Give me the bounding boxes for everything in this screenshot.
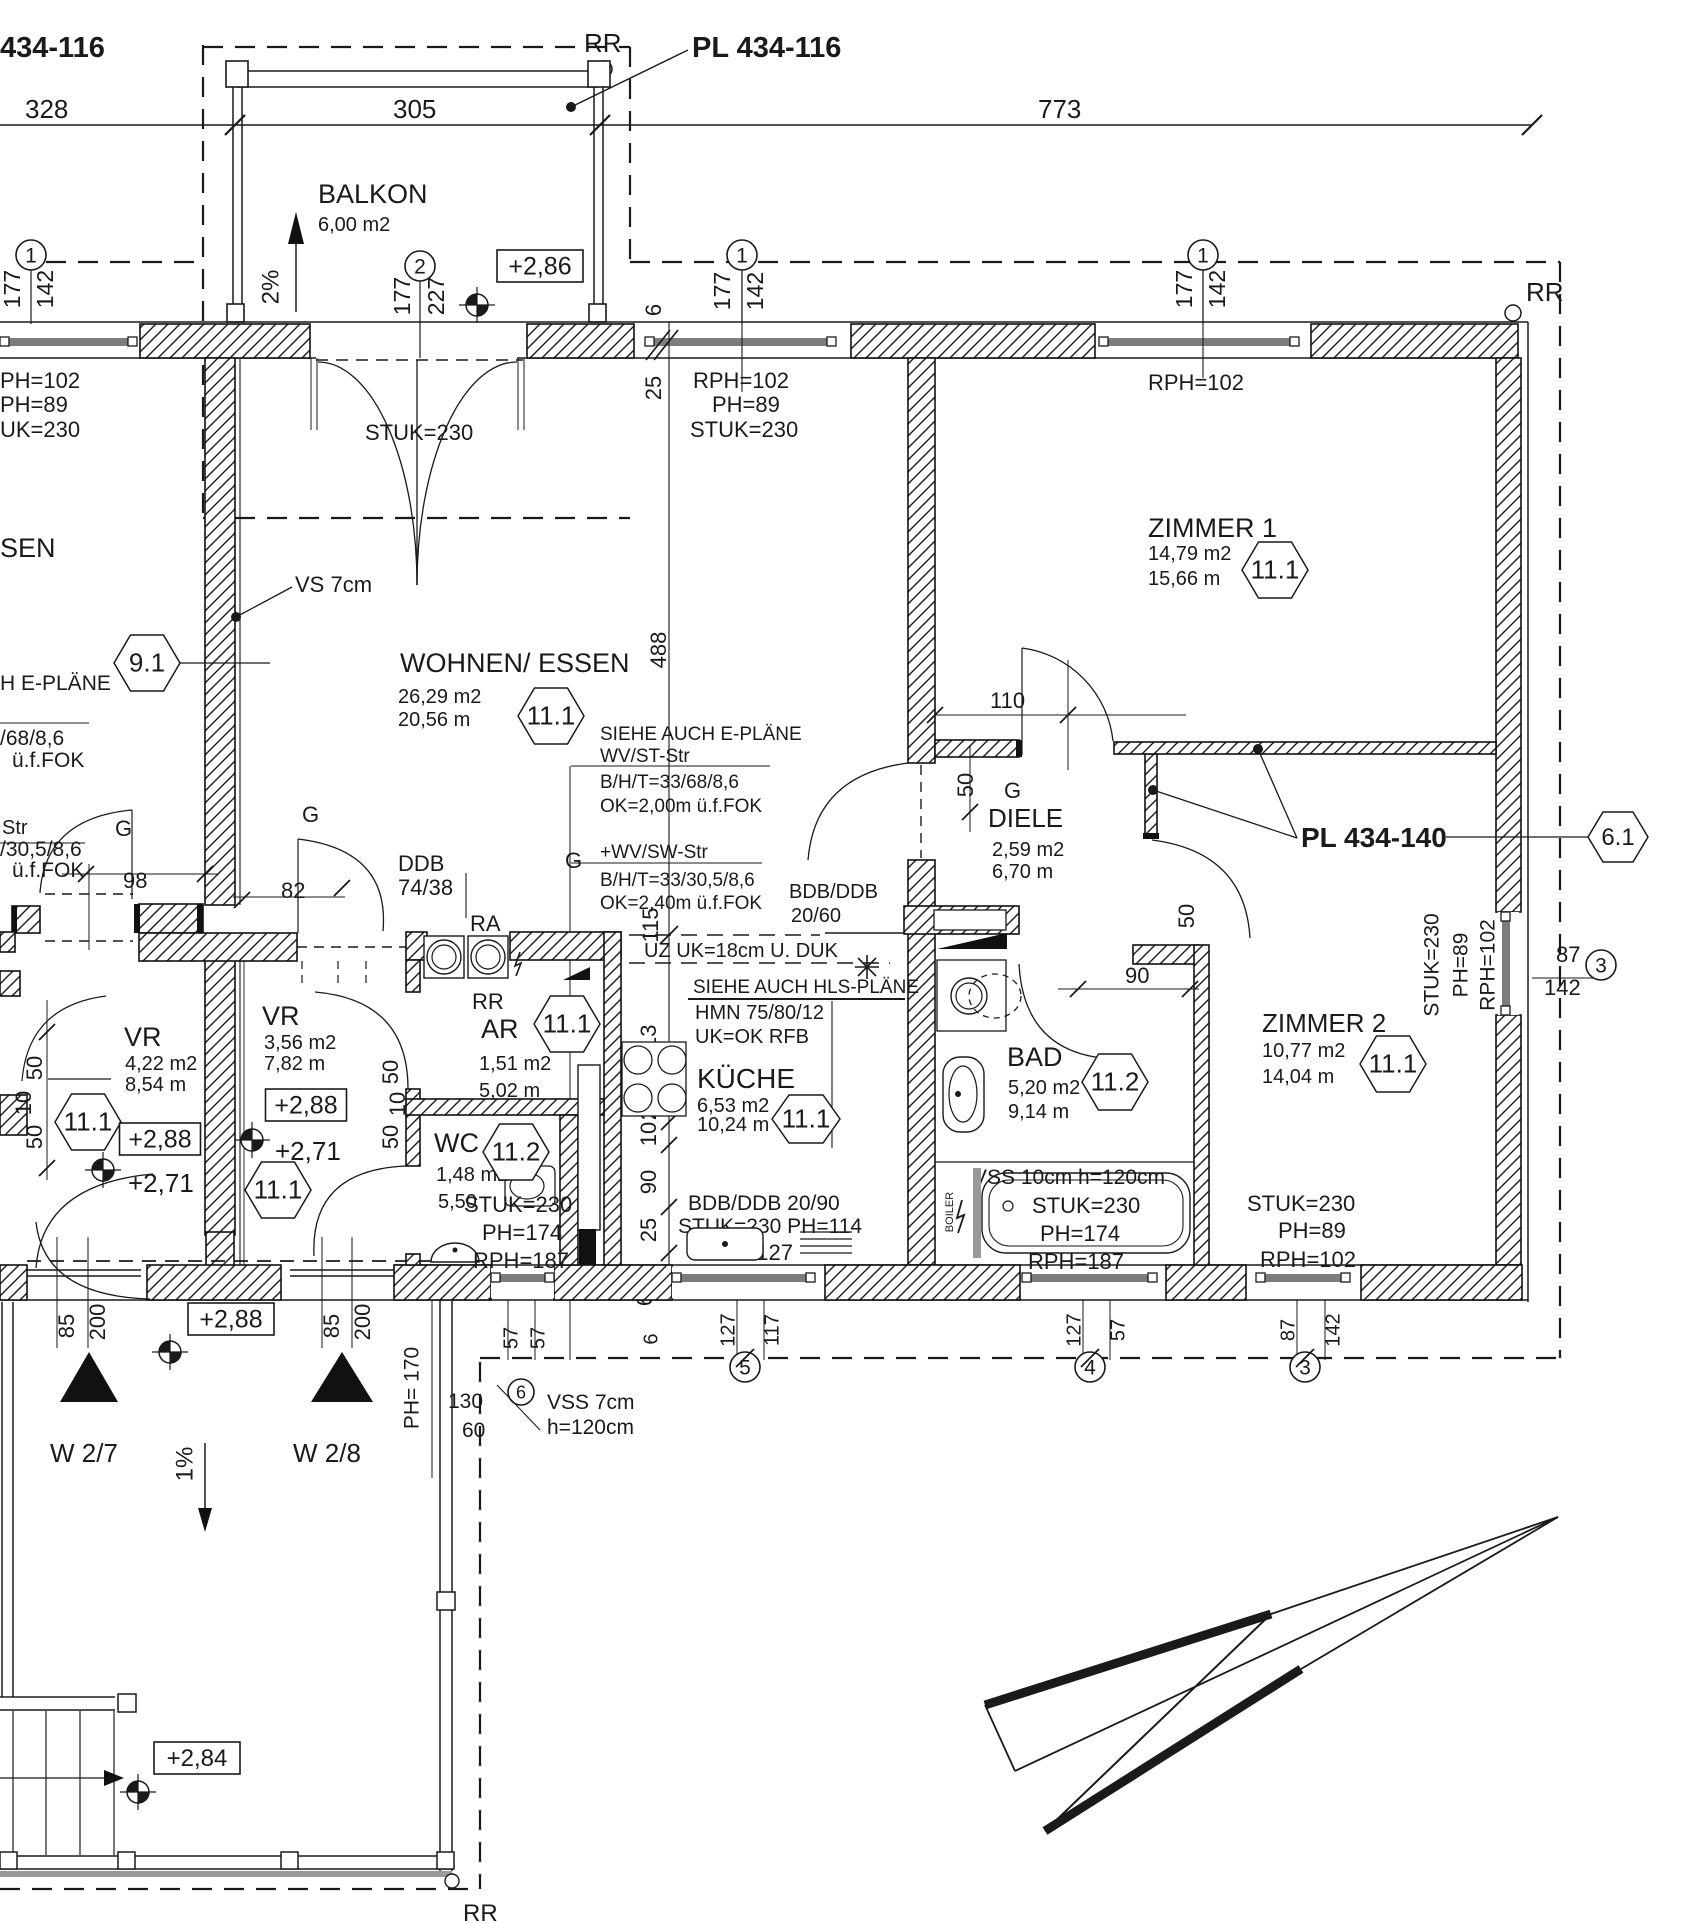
svg-text:177: 177 [709, 272, 735, 310]
svg-text:PH=89: PH=89 [1278, 1218, 1346, 1243]
svg-text:UK=230: UK=230 [0, 417, 80, 442]
svg-text:G: G [565, 848, 582, 873]
svg-text:57: 57 [1107, 1319, 1129, 1341]
svg-text:142: 142 [32, 270, 58, 308]
svg-text:87: 87 [1277, 1319, 1299, 1341]
svg-text:142: 142 [1322, 1313, 1344, 1346]
svg-text:50: 50 [378, 1125, 403, 1149]
svg-text:+2,88: +2,88 [128, 1125, 191, 1153]
svg-text:+2,84: +2,84 [167, 1745, 228, 1772]
svg-text:142: 142 [1544, 975, 1581, 1000]
svg-text:50: 50 [1174, 904, 1199, 928]
svg-text:+2,88: +2,88 [274, 1091, 337, 1119]
svg-text:2,59 m2: 2,59 m2 [992, 839, 1064, 861]
svg-text:BAD: BAD [1007, 1042, 1063, 1072]
svg-text:BDB/DDB 20/90: BDB/DDB 20/90 [688, 1192, 840, 1215]
svg-text:1: 1 [25, 244, 37, 267]
svg-text:3,56 m2: 3,56 m2 [264, 1032, 336, 1054]
svg-text:85: 85 [319, 1314, 344, 1338]
svg-text:200: 200 [85, 1304, 110, 1341]
svg-text:1: 1 [736, 244, 748, 267]
svg-text:RR: RR [472, 989, 504, 1014]
svg-text:DIELE: DIELE [988, 803, 1063, 833]
svg-text:VS 7cm: VS 7cm [295, 572, 372, 597]
svg-text:773: 773 [1038, 94, 1081, 124]
svg-text:110: 110 [990, 688, 1025, 713]
svg-text:10: 10 [11, 1091, 36, 1115]
svg-text:5,20 m2: 5,20 m2 [1008, 1077, 1080, 1099]
svg-text:2: 2 [414, 255, 426, 278]
svg-text:PH=174: PH=174 [1040, 1221, 1120, 1246]
svg-text:+2,71: +2,71 [128, 1168, 194, 1198]
svg-text:8,54 m: 8,54 m [125, 1074, 186, 1096]
svg-text:PH=89: PH=89 [712, 392, 780, 417]
svg-text:11.1: 11.1 [782, 1104, 831, 1134]
svg-text:VR: VR [262, 1001, 300, 1031]
svg-text:177: 177 [0, 270, 25, 308]
svg-text:RPH=102: RPH=102 [1260, 1247, 1356, 1272]
svg-text:RPH=102: RPH=102 [1477, 919, 1500, 1011]
svg-text:PH=174: PH=174 [482, 1220, 562, 1245]
svg-text:G: G [302, 802, 319, 827]
svg-text:6,00 m2: 6,00 m2 [318, 214, 390, 236]
svg-text:4,22 m2: 4,22 m2 [125, 1053, 197, 1075]
svg-text:14,04 m: 14,04 m [1262, 1066, 1334, 1088]
svg-text:WOHNEN/ ESSEN: WOHNEN/ ESSEN [400, 648, 630, 678]
svg-text:74/38: 74/38 [398, 875, 453, 900]
svg-text:10,24 m: 10,24 m [697, 1114, 769, 1136]
svg-text:B/H/T=33/30,5/8,6: B/H/T=33/30,5/8,6 [600, 870, 755, 891]
svg-text:STUK=230: STUK=230 [1421, 913, 1444, 1016]
svg-text:W 2/7: W 2/7 [50, 1438, 118, 1468]
svg-text:RA: RA [470, 911, 501, 936]
svg-text:6.1: 6.1 [1601, 824, 1634, 851]
svg-text:+2,88: +2,88 [199, 1305, 262, 1333]
svg-text:3: 3 [1299, 1356, 1311, 1379]
svg-text:WC: WC [434, 1128, 479, 1158]
svg-text:RPH=102: RPH=102 [693, 368, 789, 393]
svg-text:57: 57 [527, 1327, 549, 1349]
svg-text:VR: VR [124, 1022, 162, 1052]
svg-text:10: 10 [385, 1092, 410, 1116]
svg-text:WV/ST-Str: WV/ST-Str [600, 746, 690, 767]
svg-text:60: 60 [462, 1419, 485, 1442]
svg-text:25: 25 [641, 376, 666, 400]
svg-text:11.2: 11.2 [1091, 1067, 1140, 1097]
svg-text:1%: 1% [171, 1447, 198, 1482]
svg-text:50: 50 [953, 773, 978, 797]
svg-text:PH=102: PH=102 [0, 368, 80, 393]
svg-text:7,82 m: 7,82 m [264, 1053, 325, 1075]
svg-text:11.1: 11.1 [543, 1009, 592, 1039]
svg-text:10,77 m2: 10,77 m2 [1262, 1040, 1345, 1062]
svg-text:11.1: 11.1 [254, 1175, 303, 1205]
svg-text:ü.f.FOK: ü.f.FOK [12, 859, 84, 882]
svg-text:9.1: 9.1 [129, 648, 165, 678]
svg-text:5: 5 [739, 1356, 751, 1379]
svg-text:Str: Str [2, 817, 28, 839]
svg-text:50: 50 [378, 1060, 403, 1084]
svg-text:RPH=187: RPH=187 [473, 1248, 569, 1273]
svg-text:90: 90 [636, 1170, 661, 1194]
svg-text:26,29 m2: 26,29 m2 [398, 686, 481, 708]
svg-text:RPH=187: RPH=187 [1028, 1249, 1124, 1274]
svg-text:4: 4 [1084, 1356, 1096, 1379]
svg-text:177: 177 [389, 277, 415, 315]
svg-text:11.2: 11.2 [492, 1137, 541, 1167]
svg-text:6,70 m: 6,70 m [992, 861, 1053, 883]
svg-text:15,66 m: 15,66 m [1148, 568, 1220, 590]
svg-text:BDB/DDB: BDB/DDB [789, 881, 878, 903]
svg-text:9,14 m: 9,14 m [1008, 1101, 1069, 1123]
svg-text:h=120cm: h=120cm [547, 1416, 634, 1439]
svg-text:130: 130 [448, 1390, 483, 1413]
svg-text:H E-PLÄNE: H E-PLÄNE [0, 672, 111, 695]
svg-text:PH=89: PH=89 [0, 392, 68, 417]
svg-text:127: 127 [1063, 1313, 1085, 1346]
svg-text:BOILER: BOILER [944, 1192, 956, 1232]
svg-text:BALKON: BALKON [318, 179, 428, 209]
svg-text:UK=OK RFB: UK=OK RFB [695, 1026, 809, 1048]
svg-text:5,02 m: 5,02 m [479, 1080, 540, 1102]
svg-text:ü.f.FOK: ü.f.FOK [12, 749, 84, 772]
svg-text:RR: RR [1526, 277, 1564, 307]
svg-text:2%: 2% [257, 270, 284, 305]
svg-text:G: G [1004, 778, 1021, 803]
svg-text:PH= 170: PH= 170 [401, 1347, 424, 1429]
svg-text:RR: RR [463, 1900, 498, 1923]
svg-text:50: 50 [22, 1125, 47, 1149]
svg-text:142: 142 [742, 272, 768, 310]
svg-text:6: 6 [516, 1382, 526, 1402]
svg-text:HMN 75/80/12: HMN 75/80/12 [695, 1002, 824, 1024]
svg-text:W 2/8: W 2/8 [293, 1438, 361, 1468]
svg-text:20,56 m: 20,56 m [398, 709, 470, 731]
svg-text:G: G [115, 816, 132, 841]
svg-text:VSS 7cm: VSS 7cm [547, 1391, 635, 1414]
svg-text:6: 6 [641, 304, 666, 316]
svg-text:UZ UK=18cm U. DUK: UZ UK=18cm U. DUK [644, 940, 839, 962]
svg-text:SIEHE AUCH E-PLÄNE: SIEHE AUCH E-PLÄNE [600, 724, 802, 745]
svg-text:/30,5/8,6: /30,5/8,6 [0, 838, 82, 861]
svg-text:OK=2,40m ü.f.FOK: OK=2,40m ü.f.FOK [600, 893, 762, 914]
svg-text:6: 6 [640, 1333, 662, 1344]
svg-text:ZIMMER 2: ZIMMER 2 [1262, 1008, 1386, 1038]
svg-text:50: 50 [22, 1056, 47, 1080]
svg-text:VSS 10cm h=120cm: VSS 10cm h=120cm [973, 1166, 1165, 1189]
svg-text:/68/8,6: /68/8,6 [0, 727, 64, 750]
svg-text:87: 87 [1556, 942, 1580, 967]
svg-text:B/H/T=33/68/8,6: B/H/T=33/68/8,6 [600, 772, 739, 793]
svg-text:PL 434-116: PL 434-116 [692, 32, 841, 64]
svg-text:328: 328 [25, 94, 68, 124]
svg-text:85: 85 [54, 1314, 79, 1338]
svg-text:98: 98 [123, 868, 147, 893]
svg-text:11.1: 11.1 [527, 701, 576, 731]
svg-text:488: 488 [646, 632, 671, 669]
svg-text:3: 3 [1595, 954, 1607, 977]
svg-text:STUK=230: STUK=230 [1032, 1193, 1140, 1218]
svg-text:11.1: 11.1 [1369, 1049, 1418, 1079]
svg-text:RR: RR [584, 28, 622, 58]
svg-text:+WV/SW-Str: +WV/SW-Str [600, 842, 709, 863]
svg-text:117: 117 [761, 1314, 783, 1346]
svg-text:+2,86: +2,86 [508, 252, 571, 280]
svg-text:ZIMMER 1: ZIMMER 1 [1148, 513, 1277, 543]
svg-text:DDB: DDB [398, 851, 444, 876]
svg-text:57: 57 [500, 1327, 522, 1349]
svg-text:STUK=230: STUK=230 [464, 1192, 572, 1217]
svg-text:305: 305 [393, 94, 436, 124]
svg-text:434-116: 434-116 [0, 32, 105, 64]
svg-text:90: 90 [1125, 963, 1149, 988]
svg-text:AR: AR [481, 1014, 519, 1044]
svg-text:14,79 m2: 14,79 m2 [1148, 543, 1231, 565]
svg-text:127: 127 [717, 1313, 739, 1346]
svg-text:PL 434-140: PL 434-140 [1301, 822, 1447, 853]
svg-text:KÜCHE: KÜCHE [697, 1063, 795, 1094]
svg-text:227: 227 [423, 277, 449, 315]
svg-text:PH=89: PH=89 [1450, 933, 1473, 998]
svg-text:11.1: 11.1 [64, 1107, 113, 1137]
svg-text:10: 10 [636, 1122, 661, 1146]
svg-text:STUK=230: STUK=230 [365, 420, 473, 445]
svg-text:STUK=230: STUK=230 [1247, 1191, 1355, 1216]
svg-text:OK=2,00m ü.f.FOK: OK=2,00m ü.f.FOK [600, 796, 762, 817]
svg-text:SIEHE AUCH HLS-PLÄNE: SIEHE AUCH HLS-PLÄNE [693, 977, 919, 998]
svg-text:1: 1 [1197, 244, 1209, 267]
svg-text:25: 25 [636, 1218, 661, 1242]
svg-text:STUK=230: STUK=230 [690, 417, 798, 442]
svg-text:RPH=102: RPH=102 [1148, 370, 1244, 395]
svg-text:82: 82 [281, 878, 305, 903]
svg-text:11.1: 11.1 [1251, 555, 1300, 585]
svg-text:142: 142 [1204, 270, 1230, 308]
svg-text:200: 200 [350, 1304, 375, 1341]
svg-text:177: 177 [1171, 270, 1197, 308]
svg-text:SEN: SEN [0, 533, 56, 563]
svg-text:20/60: 20/60 [791, 905, 841, 927]
svg-text:1,51 m2: 1,51 m2 [479, 1053, 551, 1075]
